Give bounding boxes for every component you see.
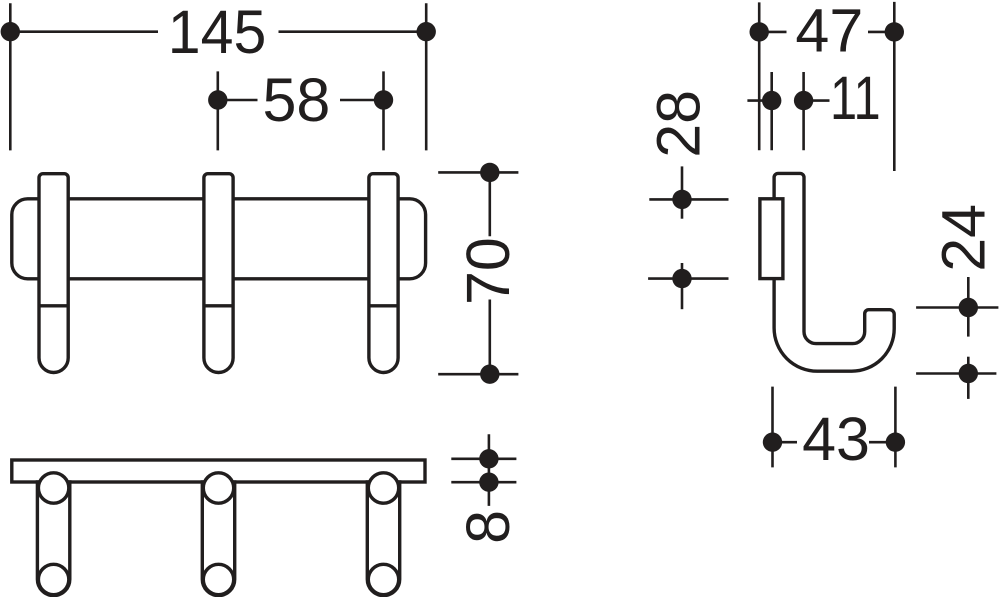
hook 3 front view (369, 174, 398, 373)
svg-text:58: 58 (263, 66, 331, 134)
dim 47 line right (868, 31, 894, 34)
hook 1 bottom view circle bottom (38, 564, 68, 594)
dim 11 line right (804, 99, 830, 102)
dim 145 ext line right (425, 3, 428, 150)
dim 70 dot top (480, 163, 499, 182)
dim 58 ext line right (382, 71, 385, 150)
svg-text:43: 43 (802, 405, 870, 473)
hook 1 front view (39, 174, 68, 373)
dim 70 ext line top (438, 171, 518, 174)
dim 47 line left (759, 31, 786, 34)
hook 1 bottom view capsule (37, 482, 69, 596)
svg-text:145: 145 (168, 0, 266, 66)
rail front view (12, 199, 426, 279)
dim 28 ext line top (649, 198, 728, 201)
hook 2 bend line (204, 304, 233, 307)
dim 8 dot bottom (479, 473, 498, 492)
svg-text:11: 11 (830, 64, 881, 132)
dim 43 line left (773, 441, 798, 444)
dim 70 ext line bottom (438, 373, 518, 376)
dim 11 line left (747, 99, 771, 102)
hook 1 bottom view circle top (38, 473, 68, 503)
rail bottom view (12, 460, 425, 482)
dim 145 dot left (1, 22, 20, 41)
svg-text:28: 28 (644, 90, 712, 158)
dim 28 line upper (681, 166, 684, 218)
hook 2 bottom view capsule (202, 482, 234, 596)
hook 3 bottom view capsule (367, 482, 399, 596)
dim 43 dot left (763, 433, 782, 452)
hook 1 bend line (39, 304, 68, 307)
dim 24 line upper (967, 277, 970, 337)
dim 8 ext line top (451, 457, 516, 460)
dim 28 ext line bottom (648, 277, 728, 280)
hook 2 bottom view circle bottom (203, 564, 233, 594)
dim 47 dot right (885, 22, 904, 41)
dim 145 ext line left (9, 3, 12, 150)
dim 145 line left (10, 30, 158, 33)
dim 58 line left (218, 99, 258, 102)
dim 11 dot left (762, 91, 781, 110)
dim 24 dot bottom (959, 364, 978, 383)
dim 70 line upper (488, 172, 491, 236)
dim 8 ext line bottom (451, 481, 516, 484)
dim 43 dot right (886, 433, 905, 452)
dim 47 ext line left (758, 2, 761, 150)
dim 70 dot bottom (480, 365, 499, 384)
wall plate side view (760, 199, 783, 279)
svg-text:24: 24 (929, 204, 997, 272)
svg-text:8: 8 (454, 510, 522, 544)
dim 145 line right (279, 30, 427, 33)
dim 28 line lower (681, 263, 684, 309)
dim 70 line lower (488, 300, 491, 375)
hook 3 bend line (369, 304, 398, 307)
dim 24 line lower (967, 357, 970, 399)
dim 24 dot top (959, 298, 978, 317)
dim 47 ext line right (893, 2, 896, 171)
dim 43 ext line left (771, 387, 774, 468)
dim 11 ext line left (770, 72, 773, 150)
hook side view J profile (774, 173, 894, 371)
dim 8 line (488, 434, 491, 506)
dim 47 dot left (750, 22, 769, 41)
hook 3 bottom view circle top (368, 473, 398, 503)
dim 28 dot bottom (672, 269, 691, 288)
dim 43 ext line right (894, 387, 897, 468)
dim 28 dot top (672, 190, 691, 209)
dim 8 dot top (479, 449, 498, 468)
hook 2 front view (204, 174, 233, 373)
dim 145 dot right (417, 22, 436, 41)
dim 43 line right (869, 441, 895, 444)
svg-text:47: 47 (795, 0, 863, 65)
dim 11 ext line right (802, 72, 805, 150)
dim 58 dot left (208, 90, 227, 109)
dim 24 ext line bottom (916, 372, 996, 375)
dim 24 ext line top (916, 306, 998, 309)
dim 58 dot right (374, 90, 393, 109)
hook 2 bottom view circle top (203, 473, 233, 503)
svg-text:70: 70 (454, 237, 522, 305)
dim 58 ext line left (217, 71, 220, 150)
dim 11 dot right (794, 91, 813, 110)
hook 3 bottom view circle bottom (368, 564, 398, 594)
dim 58 line right (340, 99, 384, 102)
